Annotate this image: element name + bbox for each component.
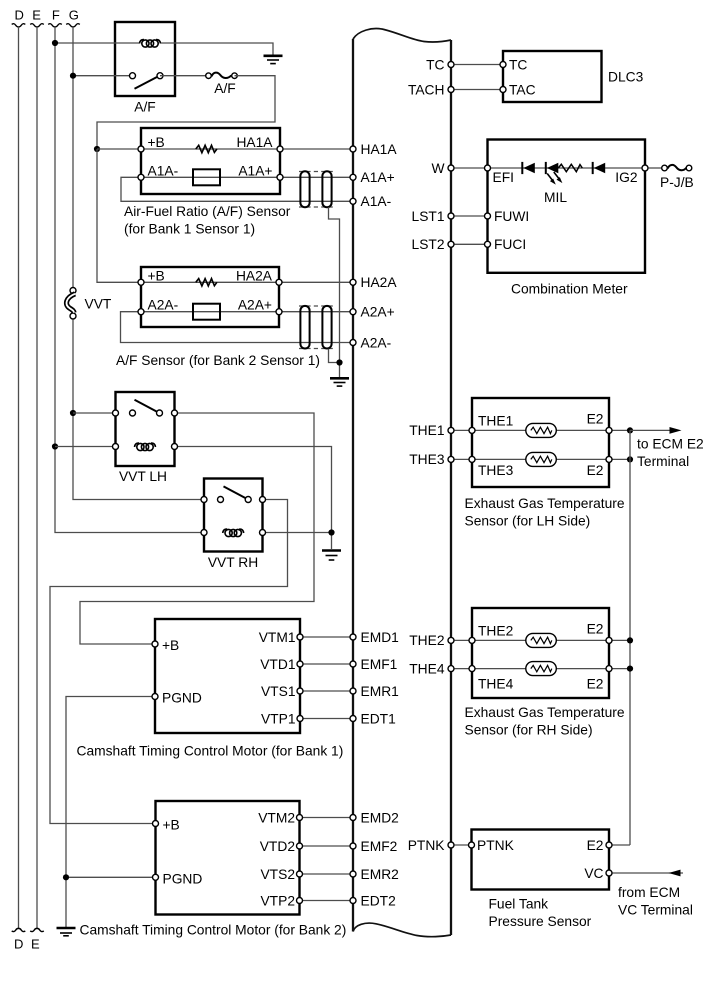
svg-text:VTS2: VTS2	[260, 867, 295, 882]
wire fuse to +B feed	[97, 76, 275, 149]
svg-text:TAC: TAC	[509, 82, 536, 97]
wire G line upper	[72, 27, 74, 287]
terminal VTD2	[297, 843, 303, 849]
wire THE4 to sensor	[455, 668, 473, 670]
ECM left edge	[352, 39, 354, 932]
terminal VTP1	[297, 716, 303, 722]
wire break D bottom	[12, 928, 26, 931]
terminal ECM A2A+	[350, 309, 356, 315]
svg-text:EDT2: EDT2	[361, 893, 396, 908]
wire A2A- route	[121, 312, 354, 343]
wire F line	[55, 27, 204, 533]
svg-text:TC: TC	[426, 57, 444, 72]
svg-text:EFI: EFI	[493, 170, 514, 185]
fuse P-J/B	[662, 165, 692, 171]
wire THE3 to sensor	[455, 458, 473, 460]
junction G switch	[70, 73, 76, 79]
svg-text:D: D	[14, 937, 23, 952]
svg-text:A2A+: A2A+	[238, 298, 272, 313]
wire relay coil to ground	[161, 43, 273, 55]
relay VVT LH coil	[113, 443, 178, 451]
shield ring bank1 left	[300, 171, 309, 207]
wire F to VVT LH coil	[55, 446, 116, 448]
svg-text:VTM1: VTM1	[259, 630, 296, 645]
heater element bank1	[193, 169, 220, 185]
diode D1	[522, 162, 535, 174]
terminal E2 RH top	[606, 637, 612, 643]
thermistor THE4	[526, 662, 557, 676]
svg-text:E2: E2	[587, 838, 604, 853]
svg-text:A1A+: A1A+	[238, 163, 272, 178]
wire break D top	[12, 24, 26, 27]
wire THE1 row	[472, 429, 630, 431]
wire THE1 to sensor	[455, 429, 473, 431]
svg-text:VVT LH: VVT LH	[119, 469, 167, 484]
wire VC from ECM	[609, 872, 683, 874]
junction shield drain	[336, 359, 342, 365]
terminal sensor THE2	[469, 637, 475, 643]
ground PGND	[57, 928, 76, 936]
wire MIL row	[488, 167, 646, 169]
svg-text:PTNK: PTNK	[408, 838, 446, 853]
svg-text:Air-Fuel Ratio (A/F) Sensor: Air-Fuel Ratio (A/F) Sensor	[124, 204, 291, 219]
svg-text:LST1: LST1	[412, 209, 445, 224]
terminal sensor THE3	[469, 456, 475, 462]
wire PGND bank2	[66, 876, 156, 878]
wire VTM2 to EMD2	[300, 817, 354, 819]
terminal ECM EDT2	[350, 898, 356, 904]
terminal ECM EMR1	[350, 688, 356, 694]
svg-text:TACH: TACH	[408, 82, 445, 97]
wire to ECM E2 arrow	[630, 427, 682, 434]
wire LST1 to meter	[455, 215, 488, 217]
wire G line to relay switch	[73, 75, 133, 77]
svg-text:A2A+: A2A+	[361, 305, 395, 320]
shield bank2 dashed	[299, 306, 333, 349]
relay coil L1	[140, 40, 161, 48]
svg-text:IG2: IG2	[615, 170, 637, 185]
heater element bank2	[193, 304, 220, 320]
svg-text:A2A-: A2A-	[148, 298, 179, 313]
svg-text:E2: E2	[587, 412, 604, 427]
svg-text:FUCI: FUCI	[494, 237, 526, 252]
svg-text:+B: +B	[163, 818, 180, 833]
junction E2 RH bottom	[627, 666, 633, 672]
svg-text:P-J/B: P-J/B	[660, 175, 694, 190]
svg-text:VC Terminal: VC Terminal	[618, 903, 693, 918]
wire HA1A row	[141, 148, 353, 150]
terminal meter IG2	[642, 165, 648, 171]
terminal ECM HA1A	[350, 146, 356, 152]
svg-text:+B: +B	[148, 268, 165, 283]
shield ring bank2 right	[322, 306, 331, 349]
terminal ECM LST2	[448, 241, 454, 247]
terminal VTP2	[297, 898, 303, 904]
ECM top torn edge	[353, 29, 451, 42]
junction F coil	[52, 40, 58, 46]
junction +B feed	[94, 146, 100, 152]
wire E line	[36, 27, 38, 929]
terminal ECM TC	[448, 62, 454, 68]
terminal ECM A2A-	[350, 340, 356, 346]
resistor heater bank2	[196, 279, 217, 286]
terminal A2A+ bank2	[276, 309, 282, 315]
wire LST2 to meter	[455, 243, 488, 245]
svg-text:HA2A: HA2A	[361, 275, 398, 290]
DLC3 box	[503, 51, 602, 102]
junction E2 LH bottom	[627, 456, 633, 462]
wire THE3 row	[472, 458, 630, 460]
wire VTD2 to EMF2	[300, 845, 354, 847]
terminal ECM THE1	[448, 427, 454, 433]
svg-text:EDT1: EDT1	[361, 711, 396, 726]
relay A/F box	[115, 22, 175, 96]
terminal ECM A1A+	[350, 174, 356, 180]
resistor heater bank1	[196, 145, 217, 152]
svg-text:Combination Meter: Combination Meter	[511, 282, 628, 297]
wire A1A- route	[121, 177, 353, 201]
terminal VTM2	[297, 815, 303, 821]
svg-text:EMF1: EMF1	[361, 657, 398, 672]
terminal ECM THE4	[448, 666, 454, 672]
svg-text:EMF2: EMF2	[361, 839, 398, 854]
svg-text:VC: VC	[584, 866, 603, 881]
svg-text:PGND: PGND	[163, 871, 203, 886]
svg-text:G: G	[69, 8, 79, 23]
terminal A2A- bank2	[138, 309, 144, 315]
wire A1A+ row	[141, 176, 353, 178]
EGT sensor LH box	[472, 398, 609, 487]
svg-text:A1A+: A1A+	[361, 170, 395, 185]
wire VTS1 to EMR1	[300, 690, 353, 692]
junction E2 LH top	[627, 427, 633, 433]
wire shield drain bank1	[329, 207, 340, 377]
wire VVT LH switch out	[80, 413, 314, 644]
terminal ECM EMF2	[350, 843, 356, 849]
svg-text:Camshaft Timing Control Motor: Camshaft Timing Control Motor (for Bank …	[80, 923, 347, 938]
svg-text:A2A-: A2A-	[361, 335, 392, 350]
wire VVT LH coil out	[175, 447, 332, 550]
wire break G top	[66, 24, 80, 27]
terminal E2 LH bottom	[606, 456, 612, 462]
wire VTD1 to EMF1	[300, 663, 353, 665]
terminal ECM LST1	[448, 213, 454, 219]
terminal sensor THE4	[469, 666, 475, 672]
svg-text:EMR2: EMR2	[361, 867, 399, 882]
svg-text:VTD2: VTD2	[260, 839, 295, 854]
svg-text:from ECM: from ECM	[618, 885, 680, 900]
wire break E bottom	[30, 928, 44, 931]
terminal ECM EDT1	[350, 716, 356, 722]
ground relay coil	[264, 56, 283, 64]
terminal VTS1	[297, 688, 303, 694]
relay VVT RH switch	[201, 486, 266, 502]
svg-text:THE2: THE2	[478, 623, 513, 638]
svg-text:EMD1: EMD1	[361, 630, 399, 645]
wire VTS2 to EMR2	[300, 873, 354, 875]
svg-text:DLC3: DLC3	[608, 70, 644, 85]
relay switch blade	[135, 77, 158, 89]
svg-text:D: D	[15, 8, 24, 23]
svg-text:Terminal: Terminal	[637, 454, 689, 469]
terminal ECM THE3	[448, 456, 454, 462]
svg-text:Pressure Sensor: Pressure Sensor	[489, 914, 592, 929]
shield bank1 dashed	[299, 172, 333, 208]
terminal ECM EMD2	[350, 815, 356, 821]
terminal HA1A bank1	[277, 146, 283, 152]
shield ring bank2 left	[300, 306, 309, 349]
svg-text:TC: TC	[509, 57, 527, 72]
terminal E2 LH top	[606, 427, 612, 433]
wire THE4 row	[472, 668, 630, 670]
terminal fuel PTNK	[469, 842, 475, 848]
terminal ECM EMR2	[350, 871, 356, 877]
terminal ECM W	[448, 165, 454, 171]
svg-text:E2: E2	[587, 463, 604, 478]
wire IG2 to fuse	[649, 167, 665, 169]
terminal ECM HA2A	[350, 279, 356, 285]
terminal fuel E2	[606, 842, 612, 848]
wire HA2A row	[141, 281, 353, 283]
ground shield	[330, 378, 349, 386]
terminal PGND motor2	[153, 874, 159, 880]
wire shield drain bank2	[329, 349, 340, 363]
terminal ECM EMD1	[350, 634, 356, 640]
shield ring bank1 right	[322, 171, 331, 207]
junction PGND common	[63, 874, 69, 880]
fuel tank pressure sensor box	[472, 830, 610, 890]
svg-text:A/F: A/F	[214, 81, 235, 96]
junction E2 RH top	[627, 637, 633, 643]
svg-text:Sensor (for LH Side): Sensor (for LH Side)	[465, 514, 591, 529]
terminal meter FUCI	[485, 241, 491, 247]
wire VTM1 to EMD1	[300, 636, 353, 638]
relay VVT LH box	[116, 392, 175, 466]
A/F sensor bank2 box	[141, 267, 279, 327]
svg-text:PGND: PGND	[162, 691, 202, 706]
thermistor THE3	[526, 452, 557, 466]
svg-text:THE3: THE3	[409, 452, 445, 467]
svg-text:A/F Sensor (for Bank 2 Sensor: A/F Sensor (for Bank 2 Sensor 1)	[116, 353, 320, 368]
wire relay switch to fuse	[160, 75, 208, 77]
wire fuel E2 to bus	[609, 844, 630, 846]
wire TC to DLC3	[455, 64, 504, 66]
wire G line lower	[73, 320, 204, 500]
svg-text:EMD2: EMD2	[361, 810, 399, 825]
svg-text:A/F: A/F	[134, 100, 155, 115]
svg-text:FUWI: FUWI	[494, 209, 529, 224]
wire +B bank1	[97, 148, 141, 150]
wire THE2 row	[472, 639, 630, 641]
wire W to meter	[455, 167, 488, 169]
terminal A1A+ bank1	[277, 174, 283, 180]
terminal ECM PTNK	[448, 842, 454, 848]
svg-text:A1A-: A1A-	[148, 163, 179, 178]
ECM right edge	[450, 40, 452, 935]
svg-text:W: W	[431, 161, 444, 176]
svg-text:Exhaust Gas Temperature: Exhaust Gas Temperature	[465, 705, 625, 720]
terminal fuel VC	[606, 870, 612, 876]
svg-text:THE4: THE4	[478, 676, 514, 691]
arrow VC	[669, 870, 681, 877]
junction G VVT LH switch	[70, 410, 76, 416]
wire D line	[18, 27, 20, 929]
wire +B down to bank2	[97, 149, 141, 282]
terminal +B bank2	[138, 279, 144, 285]
svg-text:Fuel Tank: Fuel Tank	[489, 897, 549, 912]
svg-text:(for Bank 1 Sensor 1): (for Bank 1 Sensor 1)	[124, 222, 255, 237]
wire PGND bank1	[66, 697, 155, 928]
wire VVT RH switch out	[50, 500, 288, 824]
wire VTP2 to EDT2	[300, 900, 354, 902]
LED MIL	[546, 162, 563, 185]
thermistor THE2	[526, 633, 557, 647]
svg-text:THE4: THE4	[409, 661, 445, 676]
relay switch contacts	[130, 73, 136, 79]
wire G to VVT LH switch	[73, 412, 116, 414]
svg-text:VVT RH: VVT RH	[208, 555, 258, 570]
terminal ECM A1A-	[350, 198, 356, 204]
terminal HA2A bank2	[276, 279, 282, 285]
terminal ECM EMF1	[350, 661, 356, 667]
terminal PGND motor1	[152, 694, 158, 700]
wire E2 bus	[629, 430, 631, 845]
terminal E2 RH bottom	[606, 666, 612, 672]
terminal VTM1	[297, 634, 303, 640]
diode D2	[593, 162, 606, 174]
terminal VTD1	[297, 661, 303, 667]
fuse VVT	[66, 288, 76, 320]
ground VVT coils	[322, 551, 341, 561]
svg-text:E2: E2	[587, 622, 604, 637]
svg-text:Exhaust Gas Temperature: Exhaust Gas Temperature	[465, 496, 625, 511]
wire VTP1 to EDT1	[300, 718, 353, 720]
svg-text:VTP2: VTP2	[260, 893, 295, 908]
resistor meter	[558, 164, 582, 171]
svg-text:HA1A: HA1A	[361, 142, 398, 157]
svg-text:VTD1: VTD1	[260, 657, 295, 672]
svg-text:VTM2: VTM2	[258, 810, 295, 825]
svg-text:LST2: LST2	[412, 237, 445, 252]
combination meter box	[488, 140, 646, 273]
svg-text:E: E	[31, 937, 40, 952]
EGT sensor RH box	[472, 608, 609, 698]
thermistor THE1	[526, 423, 557, 437]
svg-text:THE1: THE1	[478, 413, 513, 428]
wire F line to relay coil	[55, 42, 139, 44]
svg-text:to ECM E2: to ECM E2	[637, 437, 704, 452]
wire TACH to DLC3	[455, 89, 504, 91]
wire VVT RH coil out	[263, 532, 332, 534]
svg-text:THE3: THE3	[478, 463, 514, 478]
terminal +B motor2	[153, 821, 159, 827]
terminal sensor THE1	[469, 427, 475, 433]
fuse A/F	[206, 73, 238, 79]
terminal DLC3 TAC	[500, 87, 506, 93]
terminal DLC3 TC	[500, 62, 506, 68]
motor bank1 box	[155, 619, 300, 733]
wire break F top	[48, 24, 62, 27]
svg-text:THE2: THE2	[409, 633, 444, 648]
terminal +B motor1	[152, 641, 158, 647]
terminal meter EFI	[485, 165, 491, 171]
svg-text:HA2A: HA2A	[236, 268, 273, 283]
svg-text:MIL: MIL	[544, 190, 567, 205]
terminal meter FUWI	[485, 213, 491, 219]
junction F VVT LH coil	[52, 443, 58, 449]
terminal ECM THE2	[448, 637, 454, 643]
terminal A1A- bank1	[138, 174, 144, 180]
svg-text:E2: E2	[587, 676, 604, 691]
relay VVT RH box	[204, 479, 263, 552]
A/F sensor bank1 box	[141, 128, 280, 194]
svg-text:VTS1: VTS1	[261, 684, 296, 699]
svg-text:VVT: VVT	[85, 297, 112, 312]
svg-text:F: F	[52, 8, 60, 23]
relay VVT RH coil	[201, 529, 266, 537]
terminal VTS2	[297, 871, 303, 877]
wire A2A+ row	[141, 311, 353, 313]
svg-text:A1A-: A1A-	[361, 194, 392, 209]
wire THE2 to sensor	[455, 639, 473, 641]
wire PTNK to sensor	[455, 844, 472, 846]
junction VVT coils common	[328, 529, 334, 535]
relay VVT LH switch	[113, 400, 178, 416]
terminal +B bank1	[138, 146, 144, 152]
ECM bottom torn edge	[353, 923, 451, 937]
wire break E top	[30, 24, 44, 27]
svg-text:PTNK: PTNK	[477, 838, 515, 853]
svg-text:HA1A: HA1A	[236, 135, 273, 150]
terminal ECM TACH	[448, 87, 454, 93]
svg-text:THE1: THE1	[409, 423, 444, 438]
motor bank2 box	[156, 801, 300, 915]
svg-text:E: E	[32, 8, 41, 23]
svg-text:Camshaft Timing Control Motor: Camshaft Timing Control Motor (for Bank …	[77, 744, 344, 759]
svg-text:+B: +B	[162, 638, 179, 653]
svg-text:Sensor (for RH Side): Sensor (for RH Side)	[465, 723, 593, 738]
svg-text:VTP1: VTP1	[261, 711, 296, 726]
svg-text:EMR1: EMR1	[361, 684, 399, 699]
svg-text:+B: +B	[148, 135, 165, 150]
